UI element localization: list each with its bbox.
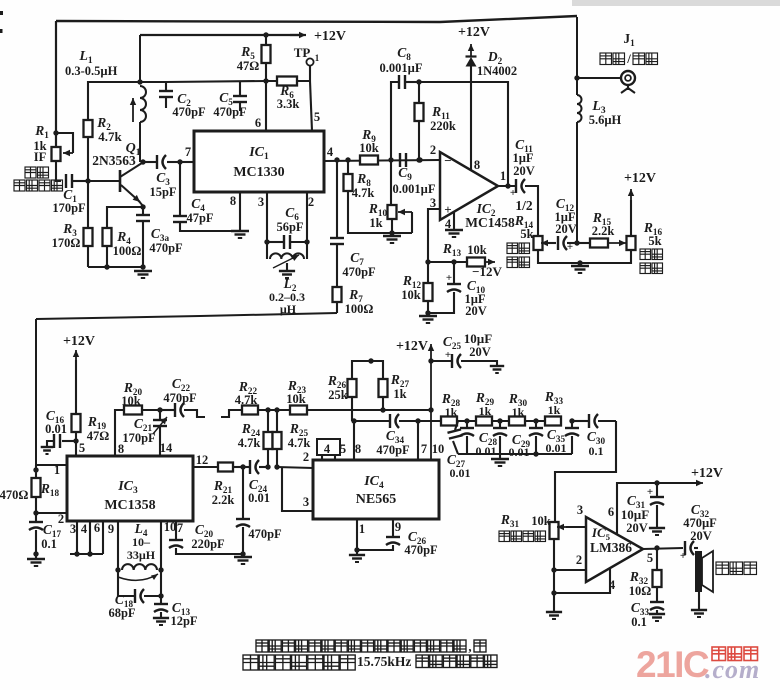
ground (C33) bbox=[649, 613, 665, 615]
svg-text:47pF: 47pF bbox=[186, 211, 213, 225]
svg-text:470pF: 470pF bbox=[163, 391, 197, 405]
wire emitter ground bus bbox=[88, 266, 143, 268]
svg-text:2: 2 bbox=[430, 143, 436, 157]
resistor R25 4.7k bbox=[276, 410, 278, 432]
resistor R20 10k bbox=[124, 406, 142, 415]
svg-text:MC1330: MC1330 bbox=[233, 165, 284, 180]
svg-text:10Ω: 10Ω bbox=[629, 584, 652, 598]
svg-text:1: 1 bbox=[315, 53, 320, 63]
wire left rail to R1 bbox=[55, 21, 57, 147]
ground (filter bus) bbox=[499, 454, 501, 459]
resistor R12 10k bbox=[427, 262, 429, 283]
svg-text:4: 4 bbox=[327, 145, 334, 159]
svg-text:20V: 20V bbox=[513, 164, 535, 178]
svg-text:0.01: 0.01 bbox=[509, 445, 530, 459]
svg-text:10k: 10k bbox=[531, 514, 551, 528]
resistor R11 220k bbox=[418, 82, 420, 103]
wire rail down to L1/C2 node bbox=[139, 35, 141, 82]
svg-text:47Ω: 47Ω bbox=[87, 429, 110, 443]
svg-text:9: 9 bbox=[108, 522, 114, 536]
transistor Q1 2N3563 bbox=[119, 170, 122, 192]
svg-text:21IC: 21IC bbox=[636, 644, 709, 685]
label 输入/输出 bbox=[600, 53, 625, 65]
svg-text:5: 5 bbox=[79, 441, 85, 455]
svg-text:470pF: 470pF bbox=[172, 105, 206, 119]
svg-text:4.7k: 4.7k bbox=[288, 436, 311, 450]
svg-text:+12V: +12V bbox=[624, 171, 656, 186]
wire pin4 bbox=[554, 568, 610, 593]
wire IC3 pin12 row bbox=[193, 466, 218, 468]
svg-text:7: 7 bbox=[177, 521, 183, 535]
ground (R10) bbox=[383, 235, 401, 237]
capacitor C24 0.01 bbox=[243, 466, 250, 468]
resistor R6 3.3k bbox=[277, 77, 297, 86]
resistor R32 10ohm bbox=[656, 548, 658, 570]
capacitor C2 470pF decoupling bbox=[140, 82, 166, 91]
wire NE565 pin8 bbox=[353, 421, 355, 460]
svg-text:+: + bbox=[445, 349, 451, 361]
ground (NE565 pin1) bbox=[356, 550, 358, 555]
wire pin6 to +12V rail bbox=[617, 483, 700, 534]
svg-text:4.7k: 4.7k bbox=[352, 186, 375, 200]
power +12V arrow (top rail) bbox=[290, 34, 306, 36]
wire pin2 bbox=[554, 569, 586, 571]
wire IC3 pins 3,4,6 bus bbox=[76, 521, 78, 554]
svg-text:4.7k: 4.7k bbox=[235, 393, 258, 407]
op IC4 NE565 box bbox=[313, 460, 439, 519]
capacitor C34 470pF bbox=[354, 420, 389, 422]
resistor R33 1k bbox=[525, 420, 545, 422]
watermark 电子网 bbox=[712, 647, 758, 661]
resistor R7 100ohm bbox=[333, 287, 342, 302]
ground (C17) bbox=[35, 554, 37, 559]
capacitor C25 10uF 20V bbox=[431, 360, 452, 362]
resistor R13 10k bbox=[467, 258, 485, 267]
wire left rail down bbox=[35, 319, 37, 465]
resistor R29 1k bbox=[476, 417, 492, 426]
resistor R21 2.2k bbox=[218, 463, 233, 472]
jumper box pins4-5 bbox=[317, 439, 340, 455]
svg-text:1µF: 1µF bbox=[512, 151, 533, 165]
svg-text:1N4002: 1N4002 bbox=[477, 64, 517, 78]
svg-text:4: 4 bbox=[81, 522, 88, 536]
ground (C16) bbox=[41, 446, 54, 448]
wire IC1 pin3 bbox=[266, 192, 268, 242]
svg-text:0.001µF: 0.001µF bbox=[393, 182, 436, 196]
ground (R12) bbox=[419, 315, 437, 317]
svg-text:5.6µH: 5.6µH bbox=[589, 113, 622, 127]
wire pin3 input bbox=[428, 209, 440, 262]
svg-text:12pF: 12pF bbox=[170, 614, 197, 628]
wire IC1 pin8 to ground bbox=[239, 192, 241, 231]
svg-text:1k: 1k bbox=[512, 405, 525, 419]
capacitor C32 470uF 20V bbox=[684, 541, 686, 555]
capacitor C18 68pF bbox=[134, 589, 136, 603]
wire emitter to R4 bbox=[140, 204, 145, 209]
ground (emitter bus) bbox=[134, 270, 152, 272]
svg-text:220pF: 220pF bbox=[191, 537, 225, 551]
capacitor C17 0.1 bbox=[35, 513, 37, 522]
wire +12V rail top bbox=[140, 34, 301, 36]
svg-text:2: 2 bbox=[308, 195, 314, 209]
svg-text:470pF: 470pF bbox=[376, 443, 410, 457]
wire filter ground bus bbox=[458, 453, 572, 455]
svg-text:+12V: +12V bbox=[691, 466, 723, 481]
capacitor C8 0.001uF bbox=[398, 75, 400, 89]
svg-text:170pF: 170pF bbox=[52, 201, 86, 215]
scan edge marks bbox=[0, 11, 3, 15]
svg-text:0.3-0.5µH: 0.3-0.5µH bbox=[65, 64, 118, 78]
svg-text:0.01: 0.01 bbox=[476, 444, 497, 458]
svg-text:3: 3 bbox=[430, 196, 436, 210]
ground (C13) bbox=[153, 617, 169, 619]
svg-text:470pF: 470pF bbox=[404, 543, 438, 557]
svg-text:1k: 1k bbox=[445, 405, 458, 419]
capacitor C5 470pF decoupling bbox=[239, 82, 241, 96]
svg-text:470pF: 470pF bbox=[213, 105, 247, 119]
inductor L1 (variable) bbox=[140, 86, 146, 122]
svg-text:3: 3 bbox=[577, 503, 583, 517]
node L1 top bbox=[137, 79, 142, 84]
svg-text:3: 3 bbox=[70, 522, 76, 536]
wire decoupled supply node bbox=[166, 81, 266, 82]
resistor R8 4.7k bbox=[347, 160, 349, 174]
svg-text:10k: 10k bbox=[359, 141, 379, 155]
label 音量调节 (volume adjust) bbox=[499, 531, 522, 542]
resistor R27 1k bbox=[379, 379, 388, 397]
op-amp IC5 LM386 bbox=[586, 517, 643, 582]
svg-text:20V: 20V bbox=[690, 529, 712, 543]
svg-text:3: 3 bbox=[303, 495, 309, 509]
power +12V (LM386) bbox=[688, 482, 703, 484]
svg-text:0.01: 0.01 bbox=[248, 491, 270, 505]
wire top feedback line bbox=[56, 16, 577, 22]
capacitor C28 0.01 bbox=[466, 421, 468, 428]
resistor R5 47ohm bbox=[263, 32, 268, 37]
svg-text:−: − bbox=[444, 153, 451, 168]
speaker 扬声器 bbox=[694, 547, 698, 549]
capacitor C22 470pF bbox=[160, 409, 174, 411]
caption line1 Chinese bbox=[256, 640, 466, 652]
resistor R10 1k (pot) bbox=[390, 160, 392, 205]
svg-text:20V: 20V bbox=[626, 521, 648, 535]
capacitor C1 170pF bbox=[65, 174, 67, 188]
resistor R18 470ohm bbox=[35, 465, 37, 478]
svg-text:2.2k: 2.2k bbox=[592, 224, 615, 238]
svg-text:4: 4 bbox=[324, 442, 331, 456]
resistor R1 (pot 1k IF gain) bbox=[52, 147, 61, 161]
wire L4 tuning loop bbox=[118, 570, 134, 596]
svg-text:1: 1 bbox=[500, 169, 506, 183]
resistor R31 10k volume pot bbox=[550, 522, 559, 539]
svg-text:6: 6 bbox=[94, 521, 100, 535]
svg-text:68pF: 68pF bbox=[108, 606, 135, 620]
ground (bias bus) bbox=[571, 265, 589, 267]
resistor R2 4.7k bbox=[84, 120, 93, 137]
wire pin7 to IC1 bbox=[180, 161, 194, 163]
svg-text:10–: 10– bbox=[132, 535, 151, 549]
svg-text:LM386: LM386 bbox=[590, 540, 632, 555]
svg-text:10k: 10k bbox=[121, 394, 141, 408]
ground (pin8) bbox=[231, 230, 249, 232]
svg-text:+: + bbox=[444, 202, 451, 217]
capacitor C26 470pF bbox=[392, 519, 394, 537]
resistor R28 1k bbox=[441, 417, 457, 426]
capacitor C30 0.1 bbox=[571, 421, 573, 428]
svg-text:470pF: 470pF bbox=[342, 265, 376, 279]
svg-text:MC1458: MC1458 bbox=[465, 215, 515, 230]
svg-text:1k: 1k bbox=[393, 387, 406, 401]
node J1 tap bbox=[574, 75, 579, 80]
svg-text:470pF: 470pF bbox=[149, 241, 183, 255]
resistor R22 4.7k bbox=[242, 406, 258, 415]
svg-text:470Ω: 470Ω bbox=[0, 488, 28, 502]
wire base bbox=[88, 180, 120, 182]
svg-text:MC1358: MC1358 bbox=[104, 498, 155, 513]
node output pin5 bbox=[643, 548, 683, 549]
wire to R2 top bbox=[88, 82, 140, 120]
svg-text:5: 5 bbox=[314, 110, 320, 124]
svg-text:8: 8 bbox=[230, 194, 236, 208]
svg-text:5: 5 bbox=[340, 442, 346, 456]
svg-text:1k: 1k bbox=[369, 216, 382, 230]
op IC3 MC1358 box bbox=[67, 456, 193, 521]
svg-text:NE565: NE565 bbox=[356, 492, 396, 507]
capacitor C6 56pF bbox=[267, 241, 283, 243]
svg-text:0.1: 0.1 bbox=[41, 537, 57, 551]
svg-text:4: 4 bbox=[609, 578, 616, 592]
svg-text:470pF: 470pF bbox=[248, 527, 282, 541]
resistor R16 5k bias pot bbox=[627, 236, 636, 250]
resistor R19 47ohm bbox=[72, 414, 81, 432]
wire NE565 pin3 bracket bbox=[282, 467, 313, 511]
svg-text:15.75kHz: 15.75kHz bbox=[357, 654, 411, 669]
node R25 top bbox=[274, 407, 279, 412]
capacitor C3a 470pF bbox=[142, 207, 144, 215]
wire IC1 pin4 row bbox=[324, 160, 440, 161]
wire R31 bottom rail bbox=[553, 539, 555, 612]
wire filter row bbox=[418, 420, 441, 422]
wire IC1 pin2 bbox=[306, 192, 308, 242]
capacitor C13 12pF bbox=[160, 596, 162, 604]
wire IC3 pin1 jog bbox=[36, 464, 67, 466]
bracket R26/R27 tops bbox=[352, 361, 383, 379]
svg-text:10k: 10k bbox=[401, 288, 421, 302]
svg-text:6: 6 bbox=[255, 116, 261, 130]
ground (speaker) bbox=[691, 609, 707, 611]
inductor L2 0.2-0.3uH bbox=[266, 242, 268, 259]
connector J1 input/output bbox=[577, 77, 620, 79]
svg-text:IF: IF bbox=[34, 150, 47, 164]
svg-text:4.7k: 4.7k bbox=[98, 129, 122, 144]
svg-text:470µF: 470µF bbox=[683, 516, 717, 530]
wire R14/R16 bottom bus bbox=[538, 250, 631, 263]
resistor R26 25k bbox=[348, 379, 357, 397]
node R1 top junction bbox=[53, 130, 58, 135]
node C21 top bbox=[157, 407, 162, 412]
capacitor C11 1uF 20V bbox=[498, 185, 516, 187]
svg-text:20V: 20V bbox=[555, 222, 577, 236]
capacitor C20 220pF bbox=[175, 521, 177, 540]
svg-text:1k: 1k bbox=[548, 403, 561, 417]
capacitor coupling to audio bbox=[572, 420, 588, 422]
svg-text:14: 14 bbox=[160, 441, 173, 455]
svg-text:4.7k: 4.7k bbox=[238, 436, 261, 450]
ground (C19/C20) bbox=[234, 556, 252, 558]
wire to volume pot bbox=[555, 421, 616, 522]
wire IC3 pin2 jog bbox=[33, 510, 38, 515]
wire R20 loop from pin8 bbox=[115, 410, 124, 456]
svg-text:7: 7 bbox=[421, 442, 427, 456]
capacitor C19 470pF bbox=[242, 467, 244, 519]
wire R1 bottom to C1 bbox=[56, 161, 61, 181]
svg-text:2N3563: 2N3563 bbox=[92, 153, 136, 168]
ground (IC2 pin4) bbox=[445, 229, 463, 231]
svg-text:.com: .com bbox=[705, 655, 760, 684]
wire C8 feedback loop bbox=[391, 82, 398, 160]
node pin7 bbox=[177, 159, 182, 164]
resistor R30 1k bbox=[492, 420, 509, 422]
svg-text:+: + bbox=[446, 272, 452, 284]
svg-text:+12V: +12V bbox=[396, 339, 428, 354]
svg-text:8: 8 bbox=[474, 158, 480, 172]
capacitor C27 0.01 bbox=[455, 421, 458, 430]
op-amp IC2 1/2 MC1458 bbox=[440, 152, 498, 220]
capacitor C21 170pF bbox=[159, 410, 161, 420]
wire hook to R22 bbox=[221, 410, 242, 417]
svg-text:3.3k: 3.3k bbox=[277, 97, 300, 111]
svg-text:220k: 220k bbox=[430, 119, 456, 133]
node Q1 collector bbox=[140, 159, 145, 164]
svg-text:10k: 10k bbox=[286, 392, 306, 406]
svg-text:3: 3 bbox=[258, 195, 264, 209]
capacitor C7 470pF bbox=[336, 160, 338, 238]
svg-text:0.01: 0.01 bbox=[450, 466, 471, 480]
svg-text:1: 1 bbox=[359, 522, 365, 536]
capacitor C3 15pF bbox=[143, 161, 156, 163]
svg-text:2: 2 bbox=[58, 512, 64, 526]
svg-text:47Ω: 47Ω bbox=[237, 59, 260, 73]
svg-text:1k: 1k bbox=[479, 404, 492, 418]
inductor L4 10-33uH bbox=[117, 521, 119, 570]
capacitor C35 0.01 bbox=[535, 421, 537, 428]
svg-text:+12V: +12V bbox=[314, 29, 346, 44]
svg-text:1: 1 bbox=[54, 463, 60, 477]
svg-text:33µH: 33µH bbox=[127, 548, 156, 562]
capacitor C33 0.1 bbox=[650, 601, 664, 603]
wire pin4 ground bbox=[453, 212, 455, 230]
svg-text:2.2k: 2.2k bbox=[212, 493, 235, 507]
resistor R3 170ohm bbox=[87, 181, 89, 228]
svg-text:10k: 10k bbox=[467, 243, 487, 257]
svg-text:56pF: 56pF bbox=[276, 220, 303, 234]
svg-text:10: 10 bbox=[164, 520, 177, 534]
capacitor C9 0.001uF bbox=[399, 153, 401, 167]
node R24 top bbox=[265, 407, 270, 412]
ground (C25) bbox=[490, 365, 504, 367]
node IC2 output pin1 bbox=[505, 183, 510, 188]
capacitor C4 47pF bbox=[179, 162, 181, 216]
svg-text:,: , bbox=[468, 639, 471, 654]
resistor R24 4.7k bbox=[267, 410, 269, 432]
svg-text:2: 2 bbox=[576, 553, 582, 567]
svg-text:−12V: −12V bbox=[472, 264, 502, 279]
svg-text:15pF: 15pF bbox=[149, 185, 176, 199]
inductor L3 5.6uH bbox=[577, 95, 582, 122]
svg-text:10: 10 bbox=[432, 442, 445, 456]
capacitor C10 1uF 20V bbox=[453, 262, 455, 284]
ground (L2) bbox=[279, 270, 295, 272]
capacitor C31 10uF 20V bbox=[656, 483, 658, 497]
wire long rail to lower stage bbox=[36, 313, 337, 319]
svg-text:0.1: 0.1 bbox=[631, 615, 647, 629]
svg-text:1/2: 1/2 bbox=[515, 198, 533, 213]
svg-text:170Ω: 170Ω bbox=[52, 236, 81, 250]
capacitor C12 1uF 20V bbox=[557, 236, 559, 250]
svg-text:9: 9 bbox=[395, 520, 401, 534]
svg-text:+12V: +12V bbox=[458, 25, 490, 40]
svg-text:+: + bbox=[680, 550, 686, 562]
svg-text:TP: TP bbox=[294, 45, 311, 60]
node C19 top bbox=[240, 464, 245, 469]
ground (C31) bbox=[649, 527, 665, 529]
svg-text:20V: 20V bbox=[469, 345, 491, 359]
svg-text:100Ω: 100Ω bbox=[113, 244, 142, 258]
svg-text:10µF: 10µF bbox=[621, 507, 649, 522]
resistor R15 2.2k bbox=[577, 242, 590, 244]
svg-text:20V: 20V bbox=[465, 304, 487, 318]
resistor R23 10k bbox=[258, 409, 290, 411]
svg-text:0.001µF: 0.001µF bbox=[380, 61, 423, 75]
resistor R9 10k bbox=[360, 156, 378, 165]
svg-text:170pF: 170pF bbox=[122, 431, 156, 445]
label 中频增益调节 (IF gain adjust) bbox=[25, 167, 49, 178]
node R13 row left bbox=[425, 259, 430, 264]
ground (R31 bus) bbox=[546, 611, 562, 613]
label 偏压调节 (bias adjust) bbox=[640, 249, 663, 260]
svg-text:8: 8 bbox=[355, 442, 361, 456]
wire NE565 pin1 bbox=[356, 519, 358, 550]
caption line2 Chinese bbox=[243, 655, 355, 670]
op IC1 MC1330 box bbox=[194, 131, 324, 192]
capacitor C29 0.01 bbox=[499, 421, 501, 428]
resistor R14 5k gain pot bbox=[534, 236, 543, 250]
svg-text:+12V: +12V bbox=[63, 334, 95, 349]
svg-text:25k: 25k bbox=[328, 388, 348, 402]
svg-text:12: 12 bbox=[196, 453, 209, 467]
wire L3 vertical line bbox=[576, 17, 578, 95]
svg-text:5k: 5k bbox=[520, 227, 533, 241]
svg-text:+: + bbox=[510, 187, 516, 199]
svg-text:5k: 5k bbox=[648, 234, 661, 248]
svg-text:2: 2 bbox=[303, 450, 309, 464]
svg-text:10µF: 10µF bbox=[464, 331, 492, 346]
wire R6 row bbox=[266, 80, 311, 82]
testpoint TP1 bbox=[306, 58, 313, 65]
node L3 bottom bbox=[574, 240, 579, 245]
label 增益调节 (gain adjust) bbox=[507, 243, 530, 254]
svg-text:6: 6 bbox=[608, 505, 614, 519]
resistor R4 100ohm bbox=[103, 228, 112, 246]
wire pin6 bbox=[265, 81, 267, 131]
svg-text:0.01: 0.01 bbox=[45, 422, 67, 436]
wire to NE565 pin2 bbox=[277, 467, 313, 468]
svg-text:0.1: 0.1 bbox=[589, 444, 604, 458]
svg-text:0.01: 0.01 bbox=[546, 441, 567, 455]
svg-text:7: 7 bbox=[185, 145, 191, 159]
capacitor C16 0.01 bbox=[62, 440, 76, 442]
svg-text:/: / bbox=[626, 51, 631, 66]
